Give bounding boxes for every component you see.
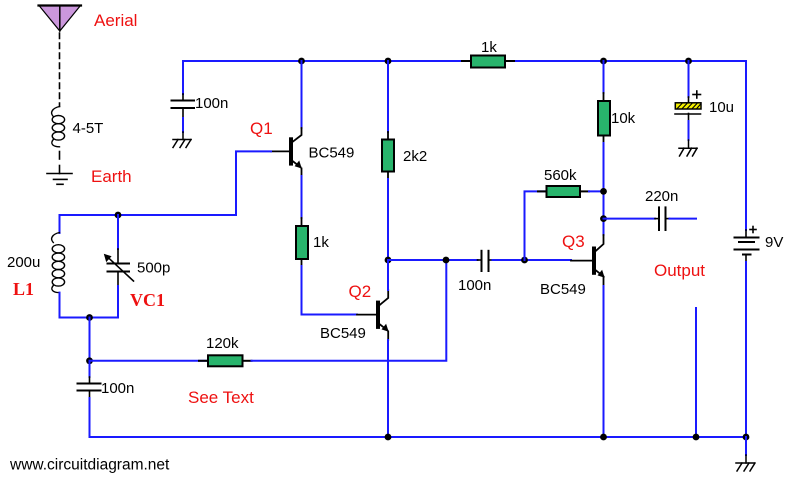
svg-text:BC549: BC549 xyxy=(320,325,366,342)
resistor 1k (Q1 emitter) xyxy=(296,218,308,266)
wire Q3 emitter down xyxy=(603,286,605,437)
wire feedback left segment xyxy=(90,360,209,362)
wire top rail right segment xyxy=(514,61,746,230)
svg-text:L1: L1 xyxy=(13,279,34,299)
wire 2k2 bottom to node xyxy=(387,179,389,260)
node tank bottom xyxy=(86,314,93,321)
wire 220n right (output) xyxy=(670,218,697,220)
wire L1 left top xyxy=(59,215,61,233)
svg-text:10u: 10u xyxy=(709,99,734,116)
wire 1k to Q2 base xyxy=(302,266,358,315)
svg-text:1k: 1k xyxy=(313,234,329,251)
wire cap to ground xyxy=(182,118,184,132)
transistor Q2 BC549 xyxy=(357,290,389,340)
capacitor 100n (bottom left) xyxy=(78,361,101,437)
variable capacitor VC1 xyxy=(104,215,134,318)
svg-text:100n: 100n xyxy=(101,380,134,397)
node feedback xyxy=(86,357,93,364)
chassis ground (bottom right) xyxy=(736,455,755,471)
wire feedback right segment xyxy=(252,260,447,361)
svg-text:BC549: BC549 xyxy=(540,281,586,298)
svg-text:Aerial: Aerial xyxy=(94,11,137,30)
wire Q1 emitter to 1k xyxy=(301,176,303,218)
dashed wire below coil xyxy=(59,152,61,160)
wire 10k top xyxy=(603,61,605,93)
wire 560k right to 10k node xyxy=(589,190,604,192)
svg-text:Q2: Q2 xyxy=(349,282,372,301)
wire Q1 collector to rail xyxy=(301,61,303,128)
resistor 560k xyxy=(538,186,589,197)
wire L1 bottom xyxy=(60,293,119,318)
svg-text:www.circuitdiagram.net: www.circuitdiagram.net xyxy=(9,457,170,474)
wire 2k2 top xyxy=(387,61,389,132)
capacitor 100n (interstage) xyxy=(478,251,493,271)
node on rail at Q1 collector xyxy=(298,58,305,65)
svg-text:Q3: Q3 xyxy=(562,232,585,251)
inductor L1 xyxy=(52,233,65,293)
svg-text:100n: 100n xyxy=(458,277,491,294)
wire cap to Q3 base xyxy=(493,259,572,261)
earth ground symbol xyxy=(47,174,72,185)
svg-text:2k2: 2k2 xyxy=(403,148,427,165)
node Q3 base / 560k xyxy=(521,257,528,264)
chassis ground (10u) xyxy=(679,140,697,156)
node on rail at 10k xyxy=(600,58,607,65)
wire tank bottom to feedback node xyxy=(89,318,91,361)
svg-text:560k: 560k xyxy=(544,167,577,184)
node Q2 collector xyxy=(385,257,392,264)
svg-text:Q1: Q1 xyxy=(250,119,273,138)
chassis ground (top-left cap) xyxy=(173,132,191,148)
wire 10k bottom to Q3 xyxy=(603,143,605,235)
node feedback takeoff xyxy=(443,257,450,264)
wire 560k left leg xyxy=(525,191,547,260)
resistor 10k xyxy=(598,93,610,143)
bottom rail wire xyxy=(90,436,747,438)
wire output stub to rail xyxy=(695,308,697,437)
electrolytic capacitor 10u xyxy=(675,61,701,140)
node 560k junction xyxy=(600,188,607,195)
wire top rail left segment xyxy=(183,61,462,94)
svg-text:10k: 10k xyxy=(611,110,636,127)
svg-text:200u: 200u xyxy=(7,254,40,271)
wire 220n left xyxy=(604,218,656,220)
node on rail at 2k2 xyxy=(385,58,392,65)
wire collector node to coupling cap xyxy=(388,259,478,261)
svg-text:See Text: See Text xyxy=(188,388,254,407)
wire Q2 collector up xyxy=(387,260,389,290)
wire Q2 emitter down xyxy=(387,340,389,437)
node battery at rail xyxy=(743,434,750,441)
node tank top xyxy=(115,212,122,219)
capacitor 100n (top left decoupling) xyxy=(172,94,195,118)
node Q3 emitter at rail xyxy=(600,434,607,441)
node on rail at 10u xyxy=(685,58,692,65)
node output stub at rail xyxy=(693,434,700,441)
svg-text:220n: 220n xyxy=(645,188,678,205)
resistor 120k xyxy=(199,355,252,366)
battery 9V xyxy=(735,227,759,263)
svg-text:Output: Output xyxy=(654,261,705,280)
resistor R 1k (top) xyxy=(462,56,514,68)
svg-text:9V: 9V xyxy=(765,234,783,251)
capacitor 220n xyxy=(655,207,670,230)
resistor 2k2 xyxy=(382,132,394,179)
svg-text:120k: 120k xyxy=(206,335,239,352)
aerial antenna symbol xyxy=(39,6,82,32)
svg-text:BC549: BC549 xyxy=(309,145,355,162)
node 220n junction xyxy=(600,215,607,222)
svg-text:1k: 1k xyxy=(481,39,497,56)
svg-text:4-5T: 4-5T xyxy=(73,120,104,137)
svg-text:500p: 500p xyxy=(137,260,170,277)
transistor Q1 BC549 xyxy=(271,128,302,176)
svg-text:Earth: Earth xyxy=(91,167,132,186)
coupling coil 4-5T xyxy=(52,107,65,147)
svg-text:100n: 100n xyxy=(195,95,228,112)
dashed aerial down-lead wire xyxy=(59,33,61,107)
svg-text:VC1: VC1 xyxy=(130,290,165,310)
transistor Q3 BC549 xyxy=(571,235,605,286)
node Q2 emitter at rail xyxy=(385,434,392,441)
wire rail to bottom-right ground xyxy=(745,437,747,455)
wire battery to bottom rail xyxy=(745,262,747,437)
wire Q1 base to tank xyxy=(60,151,272,215)
